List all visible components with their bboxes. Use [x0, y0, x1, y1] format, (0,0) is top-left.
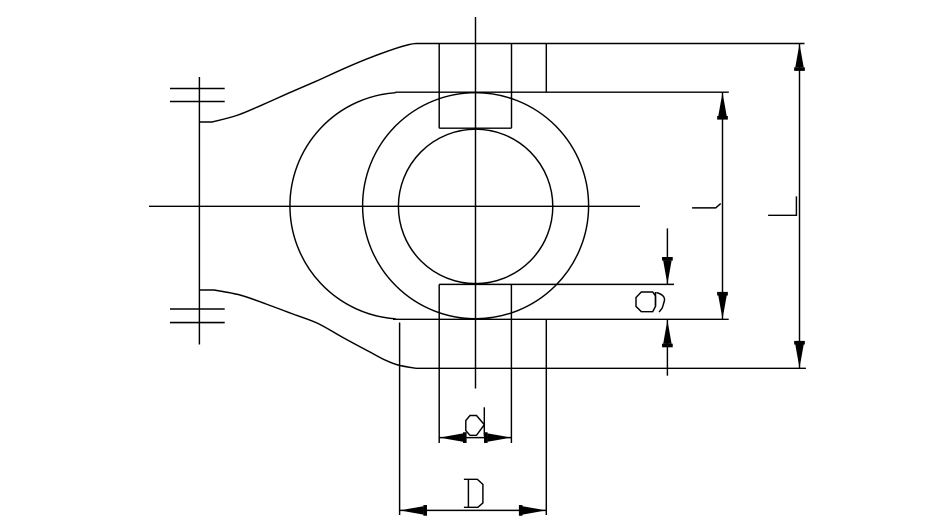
D dimension arrow left — [400, 506, 424, 514]
l dimension line — [722, 92, 724, 319]
l dimension arrow bottom — [718, 296, 726, 320]
head top face line plus extension — [395, 91, 729, 93]
label L (rotated) — [768, 196, 796, 215]
L dimension arrow bottom — [795, 345, 803, 369]
label d stem — [483, 407, 485, 436]
shaft top edge and transition curve to upper lug — [199, 44, 416, 123]
shaft end vertical — [198, 77, 200, 345]
label g stem — [655, 292, 657, 306]
lower slot left wall plus d extension — [438, 284, 440, 443]
lower slot top line plus g extension — [439, 283, 674, 285]
head left arc (obround) — [290, 93, 396, 319]
lower lug bottom line plus L extension line — [416, 367, 806, 369]
label g tail arc — [657, 293, 665, 313]
g dimension lower segment — [666, 320, 668, 376]
d dimension arrow right — [488, 433, 512, 441]
upper slot right wall — [511, 44, 513, 129]
l dimension arrow top — [718, 92, 726, 116]
g dimension upper segment — [666, 228, 668, 284]
g dimension lower arrow pointing up — [663, 320, 671, 344]
shaft break mark bottom 1 — [170, 308, 225, 310]
head bottom face line plus extension — [393, 318, 729, 320]
g dimension upper arrow pointing down — [663, 261, 671, 285]
lower slot right wall plus d extension — [510, 284, 512, 443]
d dimension arrow left — [439, 433, 463, 441]
label g bowl octagon — [636, 292, 656, 312]
D extension line left — [399, 323, 401, 516]
label l (rotated) — [692, 204, 721, 208]
D dimension line — [400, 509, 547, 511]
vertical centerline — [475, 17, 477, 389]
L dimension arrow top — [795, 44, 803, 68]
shaft break mark top 2 — [170, 101, 225, 103]
horizontal centerline — [149, 205, 640, 207]
L dimension line — [799, 44, 801, 369]
shaft bottom edge and transition curve to lower lug — [199, 290, 416, 368]
label d (bowl and stem) — [466, 416, 485, 436]
shaft break mark bottom 2 — [170, 322, 225, 324]
inner bore circle — [398, 129, 552, 283]
upper slot bottom line — [439, 127, 511, 129]
D dimension arrow right — [523, 506, 547, 514]
shaft break mark top 1 — [170, 88, 225, 90]
d dimension line — [439, 437, 511, 439]
upper lug top line plus L extension line — [416, 43, 805, 45]
outer boss circle — [363, 93, 589, 319]
label D — [464, 479, 483, 507]
upper slot left wall — [438, 44, 440, 129]
upper lug right edge — [545, 44, 547, 93]
lower lug right edge plus D extension — [545, 319, 547, 515]
